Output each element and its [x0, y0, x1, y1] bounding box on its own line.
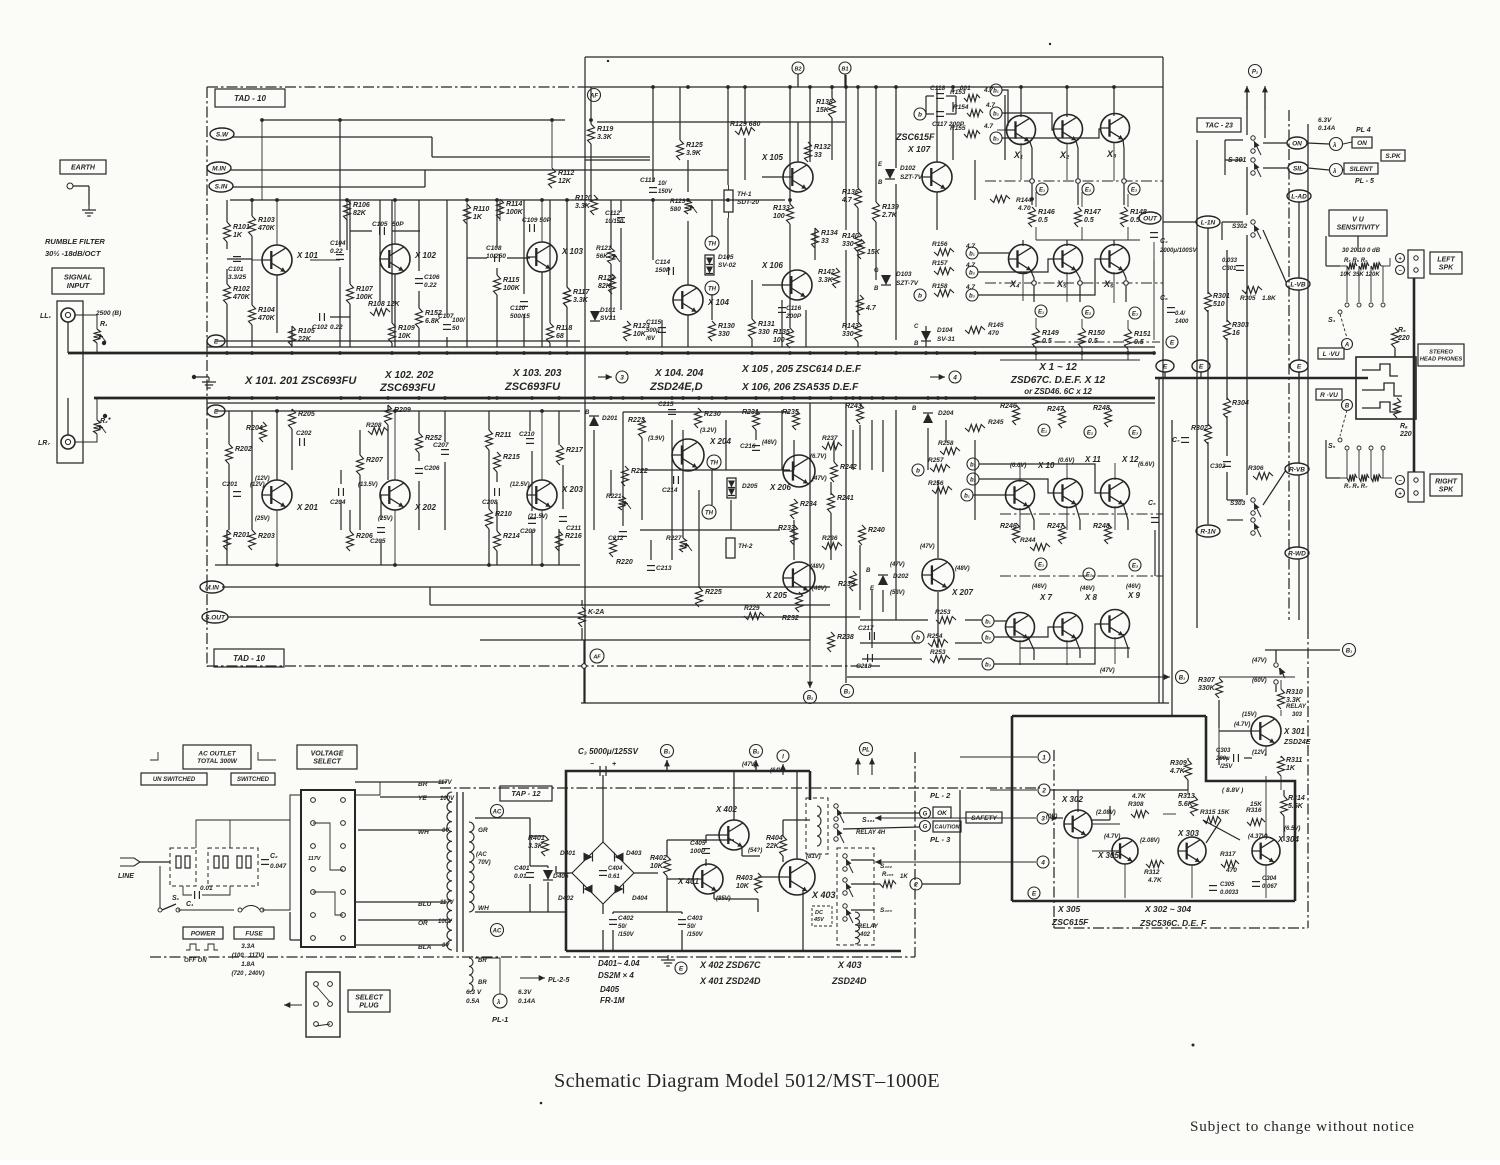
- svg-text:580: 580: [670, 206, 681, 213]
- svg-text:330: 330: [718, 331, 730, 338]
- resistor R308: [1131, 811, 1149, 818]
- capacitor C107: [443, 324, 451, 326]
- wire tap3: [358, 829, 447, 831]
- capacitor C401: [526, 872, 534, 874]
- bus bottom thick line: [94, 397, 1155, 400]
- wire cu v15: [727, 87, 729, 185]
- svg-text:0V: 0V: [442, 828, 450, 834]
- svg-text:X 301: X 301: [1283, 727, 1305, 736]
- svg-text:D204: D204: [938, 410, 954, 417]
- wire cl v4: [650, 540, 652, 560]
- resistor R257: [930, 465, 950, 472]
- svg-text:E₂: E₂: [1085, 188, 1092, 194]
- svg-text:R246: R246: [1000, 403, 1017, 410]
- capacitor C115: [658, 327, 666, 329]
- svg-text:R244: R244: [1020, 537, 1036, 544]
- wire top rail right: [585, 86, 1163, 88]
- wire outlet bracket: [150, 752, 158, 760]
- wire cu v17: [744, 87, 746, 124]
- label UNSWITCHED box: [141, 773, 207, 785]
- wire out row: [1036, 239, 1140, 241]
- node E2d: [1083, 568, 1095, 580]
- svg-text:(AC: (AC: [476, 852, 487, 858]
- svg-text:3.3K: 3.3K: [597, 134, 613, 141]
- wire cu v38: [952, 124, 954, 160]
- wire cu v5: [620, 228, 622, 310]
- wire x403 base: [758, 876, 779, 878]
- svg-text:117V: 117V: [438, 780, 453, 786]
- wire lower h rail2: [623, 411, 790, 413]
- resistor R245: [965, 425, 985, 432]
- node A circ: [1342, 339, 1353, 350]
- wire r253 stub: [965, 619, 982, 621]
- capacitor C217: [869, 632, 871, 640]
- svg-text:R-WD: R-WD: [1288, 550, 1306, 557]
- wire cl v8: [711, 470, 713, 505]
- label CAUTION box: [933, 821, 961, 832]
- wire lower h rails: [640, 469, 790, 471]
- svg-text:22K: 22K: [297, 336, 312, 343]
- capacitor C109: [529, 224, 531, 232]
- wire ll v16: [444, 411, 446, 442]
- node E2c: [1084, 426, 1096, 438]
- wire lamp links: [1343, 142, 1352, 144]
- svg-text:R308: R308: [1128, 801, 1144, 808]
- svg-text:200μ: 200μ: [1215, 756, 1230, 762]
- svg-text:AC: AC: [492, 810, 502, 816]
- svg-text:4.7: 4.7: [865, 305, 877, 312]
- svg-text:C102: C102: [312, 324, 328, 331]
- svg-text:λ: λ: [496, 1000, 500, 1006]
- svg-text:YE: YE: [418, 795, 427, 802]
- wire low v896: [895, 410, 897, 560]
- svg-text:X 305: X 305: [1057, 904, 1080, 914]
- wire X5 collector: [1066, 240, 1068, 246]
- wire v1: [276, 200, 278, 245]
- wire cl v3: [641, 438, 643, 520]
- svg-text:150P: 150P: [655, 267, 671, 274]
- svg-text:C301: C301: [1222, 266, 1237, 272]
- wire ul v20: [496, 268, 498, 275]
- node OUT oval: [1139, 212, 1161, 224]
- svg-text:(2.08V): (2.08V): [1096, 810, 1116, 816]
- svg-text:C₄: C₄: [1160, 238, 1168, 245]
- resistor R240: [859, 525, 866, 545]
- wire central lower h412: [623, 411, 790, 413]
- svg-text:R107: R107: [356, 286, 374, 293]
- svg-text:B1: B1: [841, 67, 848, 73]
- svg-text:10K 39K 120K: 10K 39K 120K: [1340, 272, 1380, 278]
- svg-text:B₂: B₂: [753, 750, 760, 756]
- wire prot v1: [1077, 790, 1079, 810]
- resistor R146: [1029, 207, 1036, 227]
- wire x301 contacts: [1275, 650, 1277, 662]
- resistor R103: [249, 216, 256, 236]
- svg-text:R155: R155: [950, 125, 966, 132]
- svg-text:(15V): (15V): [1242, 712, 1257, 718]
- svg-text:4.7K: 4.7K: [1131, 793, 1147, 800]
- dashdot right v5b: [1307, 628, 1309, 928]
- capacitor C211: [559, 516, 567, 518]
- select plug arrow: [284, 1004, 302, 1006]
- attenuator taps: [1346, 266, 1348, 302]
- node E3a: [1128, 183, 1140, 195]
- wire cl v29: [859, 425, 861, 470]
- wire ll v7: [359, 430, 361, 455]
- wire ul v13: [418, 200, 420, 271]
- node TH oval1: [705, 236, 719, 250]
- wire cu v19: [751, 280, 753, 319]
- resistor R120: [591, 195, 598, 215]
- node circ4: [1037, 856, 1049, 868]
- wire cu v30: [857, 342, 859, 347]
- resistor R247a: [1059, 408, 1066, 428]
- svg-text:R234: R234: [800, 501, 817, 508]
- svg-text:R₄ R₆ R₇: R₄ R₆ R₇: [1344, 484, 1368, 490]
- wire cl v20: [871, 420, 873, 470]
- svg-text:b₁: b₁: [985, 620, 991, 626]
- svg-text:R110: R110: [473, 206, 489, 213]
- wire ul v19: [496, 200, 498, 248]
- transistor X202: [380, 480, 410, 510]
- transistor X301: [1251, 716, 1281, 746]
- wire right v2: [1207, 228, 1209, 294]
- svg-text:(47V): (47V): [1100, 668, 1115, 674]
- resistor R101: [224, 222, 231, 242]
- svg-text:2: 2: [1041, 788, 1046, 795]
- transistor X1: [1007, 116, 1036, 145]
- node B1 right: [1265, 649, 1340, 651]
- svg-text:E₁: E₁: [1041, 429, 1047, 435]
- resistor R403: [755, 873, 762, 893]
- svg-text:100K: 100K: [506, 209, 524, 216]
- wire ul v31: [391, 343, 393, 347]
- resistor R304: [1224, 398, 1231, 418]
- wire cu v35: [936, 192, 938, 230]
- resistor R402: [664, 856, 671, 876]
- wire central v896: [895, 87, 897, 168]
- svg-text:or ZSD46. 6C x 12: or ZSD46. 6C x 12: [1024, 387, 1092, 396]
- wire mains1: [152, 861, 170, 863]
- wire ll v3: [251, 411, 253, 530]
- svg-text:b₃: b₃: [985, 663, 992, 669]
- wire cu v23: [789, 224, 791, 328]
- svg-text:B2: B2: [794, 67, 801, 73]
- wire main B+ top rail: [585, 56, 1163, 58]
- wire ul h4: [292, 259, 340, 261]
- wire x301 base row: [1219, 730, 1251, 732]
- wire ul v14: [418, 291, 420, 308]
- wire protection top thick: [1012, 715, 1206, 718]
- resistor R152: [416, 308, 423, 328]
- wire lx6: [541, 510, 543, 565]
- resistor R156: [934, 249, 954, 256]
- wire central v810: [809, 87, 811, 162]
- svg-text:R120: R120: [575, 195, 592, 202]
- label DC45: [812, 906, 832, 926]
- wire cu v26: [831, 118, 833, 160]
- svg-text:2500 (B): 2500 (B): [95, 310, 121, 317]
- svg-text:6.3 V: 6.3 V: [466, 989, 482, 996]
- wire L1N left: [1163, 221, 1196, 223]
- diode D201: [589, 416, 599, 426]
- resistor R401: [542, 836, 549, 856]
- bus left ground: [192, 375, 196, 379]
- resistor R153: [964, 95, 980, 102]
- svg-text:D101: D101: [600, 307, 616, 314]
- capacitor C7: [1181, 437, 1189, 439]
- wire tap2: [380, 796, 447, 798]
- resistor R217: [557, 445, 564, 465]
- svg-text:C304: C304: [1262, 876, 1277, 882]
- wire b2 to X11: [979, 479, 1054, 493]
- svg-text:100K: 100K: [503, 285, 521, 292]
- wire prot top: [1219, 676, 1295, 678]
- cap loop wires: [925, 96, 927, 114]
- svg-text:X 10: X 10: [1037, 461, 1055, 470]
- svg-text:+: +: [1398, 492, 1402, 498]
- svg-text:C₇: C₇: [1172, 437, 1180, 444]
- wire cu v27: [857, 87, 859, 188]
- resistor R154: [967, 110, 983, 117]
- resistor R114: [497, 199, 504, 219]
- svg-text:R ·VU: R ·VU: [1320, 392, 1338, 399]
- svg-text:C402: C402: [618, 915, 634, 922]
- resistor R102: [224, 284, 231, 304]
- svg-text:X 403: X 403: [837, 960, 862, 970]
- svg-text:b₂: b₂: [970, 478, 977, 484]
- resistor R119: [588, 124, 595, 144]
- wire upper grid1: [1020, 143, 1022, 180]
- capacitor C305: [1209, 885, 1217, 887]
- svg-text:82K: 82K: [353, 210, 367, 217]
- wire cu v25: [831, 87, 833, 98]
- svg-text:B: B: [878, 180, 883, 186]
- node B1 top: [844, 74, 846, 87]
- svg-text:R143: R143: [842, 323, 859, 330]
- svg-text:PL-2-5: PL-2-5: [548, 977, 570, 984]
- transistor X302: [1064, 810, 1092, 838]
- wire cu v2: [610, 200, 612, 248]
- wire b2 to X5: [978, 259, 1054, 272]
- wire lx1: [276, 411, 278, 480]
- diode D405: [543, 870, 553, 880]
- svg-text:6.3V: 6.3V: [1318, 117, 1332, 124]
- svg-text:R402: R402: [650, 855, 667, 862]
- resistor R131: [749, 319, 756, 339]
- svg-text:DC: DC: [815, 910, 824, 916]
- svg-text:D404: D404: [632, 895, 648, 902]
- svg-text:/25V: /25V: [1219, 764, 1233, 770]
- wire P2 drops: [1246, 110, 1248, 132]
- svg-text:PL 4: PL 4: [1356, 127, 1371, 134]
- svg-text:100P: 100P: [690, 848, 706, 855]
- svg-text:X 102. 202: X 102. 202: [384, 370, 434, 381]
- label AC OUTLET box: [183, 745, 251, 769]
- svg-text:R247: R247: [1047, 406, 1065, 413]
- svg-text:E₃: E₃: [1132, 564, 1139, 570]
- dashdot E row upper: [985, 282, 1163, 284]
- capacitor C101: [233, 256, 241, 258]
- wire cu v22: [789, 87, 791, 204]
- wire cl v17: [833, 440, 835, 462]
- wire x4 grid: [1022, 272, 1024, 301]
- svg-text:10K: 10K: [736, 883, 750, 890]
- resistor R134: [812, 228, 819, 248]
- svg-text:R316: R316: [1246, 807, 1262, 814]
- resistor R253: [936, 617, 956, 624]
- svg-text:SELECT: SELECT: [355, 994, 383, 1001]
- svg-text:R149: R149: [1042, 330, 1059, 337]
- wire X2 emitter: [1076, 141, 1078, 178]
- svg-text:R220: R220: [616, 559, 633, 566]
- svg-text:15K: 15K: [867, 249, 881, 256]
- transistor X205: [783, 562, 815, 594]
- wire AF dash-dot rail: [207, 665, 880, 667]
- svg-text:R313: R313: [1178, 793, 1195, 800]
- wire att join: [1389, 258, 1391, 266]
- svg-text:C118: C118: [930, 85, 945, 92]
- resistor R258: [940, 448, 960, 455]
- svg-text:B: B: [1345, 404, 1350, 410]
- svg-text:0.61: 0.61: [608, 874, 620, 880]
- wire input coupling: [75, 314, 90, 316]
- wire low join: [1035, 348, 1037, 360]
- node b2n: [982, 631, 994, 643]
- svg-text:R232: R232: [782, 615, 799, 622]
- wire ll v18: [488, 411, 490, 430]
- wire tap stubs: [355, 781, 380, 783]
- voltage select body: [301, 790, 355, 947]
- svg-text:HEAD PHONES: HEAD PHONES: [1420, 356, 1463, 362]
- wire bottom rails3: [430, 604, 830, 606]
- wire bottom rails1: [222, 586, 830, 588]
- capacitor C105: [379, 227, 381, 235]
- svg-text:X₁: X₁: [1013, 150, 1023, 160]
- resistor R306: [1253, 473, 1273, 480]
- svg-text:+: +: [612, 761, 616, 768]
- svg-text:470: 470: [987, 330, 999, 337]
- dashdot protection bottom: [1054, 927, 1308, 929]
- capacitor C4 col: [1153, 260, 1155, 340]
- wire v2: [394, 200, 396, 244]
- wire out col: [1153, 218, 1155, 228]
- diode D105: [705, 255, 714, 275]
- resistor R241: [828, 493, 835, 513]
- node E3d: [1129, 559, 1141, 571]
- svg-text:R315 15K: R315 15K: [1200, 809, 1231, 816]
- node b1: [990, 84, 1002, 96]
- label VOLTAGE SELECT box: [297, 745, 357, 769]
- resistor R247b: [1059, 524, 1066, 544]
- wire ll v27: [531, 531, 533, 565]
- capacitor C4: [1150, 232, 1158, 234]
- svg-text:R147: R147: [1084, 209, 1102, 216]
- transistor X9: [1101, 610, 1130, 639]
- wire ll v11: [340, 470, 342, 484]
- svg-text:4.7: 4.7: [841, 197, 853, 204]
- svg-text:S₄₀₂: S₄₀₂: [880, 863, 893, 870]
- node E oval r3: [1290, 360, 1308, 372]
- resistor R145: [965, 327, 985, 334]
- svg-text:2.7K: 2.7K: [881, 212, 898, 219]
- svg-text:C303: C303: [1216, 748, 1231, 754]
- wire central block left border: [584, 57, 586, 703]
- svg-text:(6.5V): (6.5V): [1284, 826, 1300, 832]
- svg-text:R207: R207: [366, 457, 384, 464]
- wire ll v33: [380, 540, 382, 565]
- resistor R203: [249, 530, 256, 550]
- wire top rail segment: [207, 86, 585, 88]
- svg-text:510: 510: [1213, 301, 1225, 308]
- diode D104: [921, 331, 931, 341]
- resistor R150: [1079, 328, 1086, 348]
- diode D101: [590, 311, 600, 321]
- wire ul v0: [226, 200, 228, 222]
- node b2l: [966, 266, 978, 278]
- transistor X201: [262, 480, 292, 510]
- wire ll v8: [359, 475, 361, 530]
- resistor R137: [857, 295, 864, 315]
- wire vu feed: [1357, 236, 1359, 252]
- resistor R317: [1221, 861, 1239, 868]
- wire b3 to X12: [979, 464, 1102, 493]
- resistor R210: [486, 509, 493, 529]
- wire ul v7: [276, 275, 278, 333]
- node M-IN oval bottom: [200, 581, 224, 593]
- svg-text:10/: 10/: [658, 181, 668, 187]
- node P2 top: [1249, 65, 1262, 78]
- svg-text:(47V): (47V): [742, 762, 757, 768]
- wire prot h3: [1187, 782, 1189, 795]
- wire cu v9: [679, 87, 681, 140]
- ground E ps: [667, 955, 669, 960]
- wire ul v6: [251, 325, 253, 347]
- wire ll v13: [418, 411, 420, 433]
- wire X6 collector: [1113, 240, 1115, 246]
- capacitor C214: [673, 476, 675, 484]
- wire ul v30: [391, 200, 393, 323]
- pilot lamp PL5: [1330, 164, 1343, 177]
- svg-text:R229: R229: [744, 605, 760, 612]
- svg-text:330: 330: [758, 329, 770, 336]
- svg-text:10K: 10K: [633, 331, 647, 338]
- wire ul v10: [339, 267, 341, 347]
- svg-text:SIL: SIL: [1293, 165, 1303, 172]
- bus bottom thin line: [207, 402, 1155, 404]
- svg-text:1.8A: 1.8A: [241, 961, 255, 968]
- svg-text:(12V): (12V): [1252, 750, 1267, 756]
- wire h upper1: [261, 120, 263, 200]
- node E3c: [1129, 426, 1141, 438]
- wire X10 emitters: [1028, 505, 1034, 530]
- svg-text:ZSD24E,D: ZSD24E,D: [649, 381, 703, 393]
- svg-text:λ: λ: [1332, 143, 1336, 149]
- wire bridge top feed: [602, 775, 604, 842]
- wire lower grid x10t: [1019, 465, 1021, 482]
- node open4: [1032, 281, 1037, 286]
- label SWITCHED box: [231, 773, 275, 785]
- resistor R129a: [735, 128, 755, 135]
- wire upper rail h3: [230, 199, 785, 201]
- svg-text:C210: C210: [519, 431, 535, 438]
- svg-text:X 105: X 105: [761, 153, 783, 162]
- wire ul v26: [549, 343, 551, 347]
- svg-text:b₂: b₂: [993, 112, 1000, 118]
- svg-text:BR: BR: [478, 980, 487, 986]
- wire c3 node: [1244, 757, 1252, 759]
- node L-AD oval: [1287, 190, 1311, 202]
